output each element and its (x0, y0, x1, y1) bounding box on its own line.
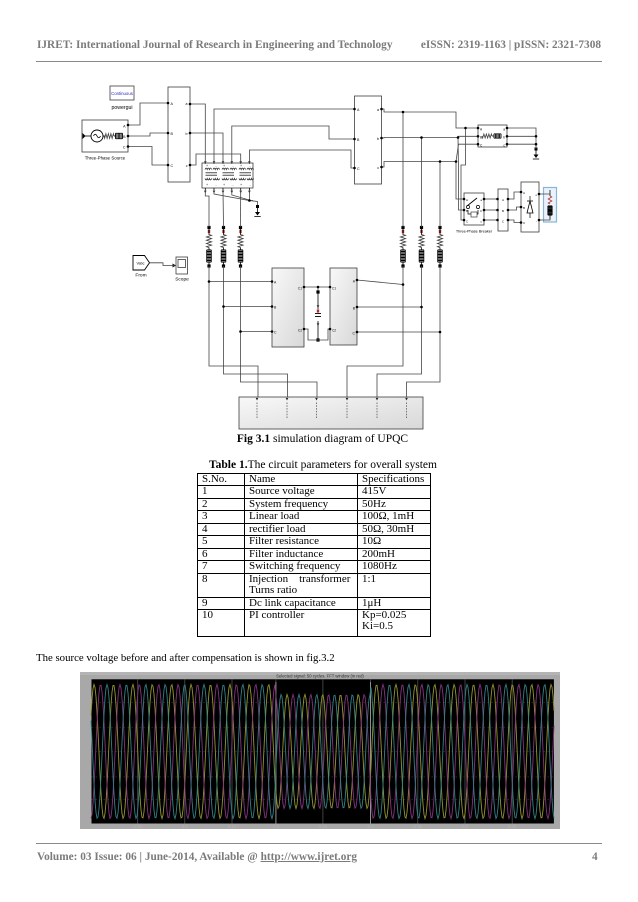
filter RLC branch left Rb (221, 226, 226, 268)
svg-text:C: C (357, 167, 360, 171)
port dot VI1 c (189, 164, 192, 167)
svg-text:+: + (535, 194, 537, 198)
svg-text:A: A (466, 198, 468, 202)
svg-text:-1000: -1000 (80, 797, 91, 802)
port dot VI1 b (189, 132, 192, 135)
svg-text:-: - (249, 183, 250, 187)
port dot bridge C (520, 221, 523, 224)
wire source C to VI1 C (128, 147, 168, 166)
port dot VI1 B (167, 132, 170, 135)
port dot load A (477, 127, 480, 130)
port dot comp C (271, 330, 274, 333)
wire phase A tap to breaker C (461, 128, 466, 220)
svg-text:+: + (240, 164, 242, 168)
port dot VI2 c (380, 166, 383, 169)
three-phase source label (85, 156, 126, 161)
gradient defs (0, 0, 1, 1)
junction branch Ra / comp A (208, 280, 211, 283)
scope outer gray frame (80, 672, 560, 829)
port dot meas a (507, 198, 510, 201)
wire breaker b to measurement B (484, 209, 497, 211)
svg-text:+: + (206, 164, 208, 168)
svg-text:b: b (186, 132, 188, 136)
filter RLC branch right Rz (437, 226, 442, 268)
wire bridge plus to RL load (539, 191, 550, 195)
three-phase breaker label (456, 230, 493, 234)
shunt compensator subsystem block (330, 268, 357, 345)
svg-text:-: - (249, 164, 250, 168)
scope vertical gridlines (137, 679, 139, 823)
port dot meas b (507, 209, 510, 212)
svg-text:C1: C1 (332, 287, 336, 291)
footer page number (592, 851, 598, 863)
port dot comp B (271, 305, 274, 308)
svg-text:-500: -500 (81, 774, 90, 779)
svg-text:c: c (377, 166, 379, 170)
ground at series RLC load (533, 148, 539, 160)
port dot source B (127, 135, 130, 138)
svg-text:a: a (377, 108, 379, 112)
junction comp A / Rx (402, 283, 405, 286)
svg-text:B: B (502, 209, 504, 213)
series compensator subsystem block (272, 268, 304, 347)
wire transformer sec 6 to ground node (249, 191, 257, 206)
svg-text:0.25: 0.25 (319, 824, 328, 829)
svg-text:c: c (186, 164, 188, 168)
powergui block (110, 86, 134, 100)
wire measurement a to bridge A (508, 192, 521, 199)
wire transformer sec 5 to branch Rc (240, 191, 242, 228)
wire transformer sec 3 to branch Rb (222, 191, 225, 228)
svg-text:-: - (536, 219, 537, 223)
table 1 (197, 473, 431, 637)
svg-text:1000: 1000 (80, 700, 90, 705)
junction capacitor top (317, 286, 320, 289)
junction at branch Rx top (402, 111, 405, 114)
svg-text:0.45: 0.45 (508, 824, 517, 829)
port dot shunt C1 (329, 286, 332, 289)
universal bridge rectifier block (521, 182, 539, 232)
wire phase C tap to breaker A (456, 162, 464, 200)
wire capacitor top tap (317, 287, 319, 291)
wire VI1 a to transformer port 1 (190, 104, 205, 164)
junction load c (535, 143, 538, 146)
wire branch Rb to series comp B (224, 306, 273, 308)
filter RLC branch left Rc (238, 226, 243, 268)
svg-text:b: b (377, 137, 379, 141)
svg-text:1500: 1500 (80, 677, 90, 682)
svg-text:Selected signal: 50 cycles. FF: Selected signal: 50 cycles. FFT window (… (276, 674, 364, 679)
port dot bridge A (520, 191, 523, 194)
svg-text:Scope: Scope (175, 277, 189, 283)
junction transformer ground node (248, 199, 251, 202)
wire transformer port 6 to VI2 C (249, 150, 354, 168)
port dot bridge B (520, 206, 523, 209)
port dot breaker b (483, 209, 486, 212)
junction comp C / Rz (439, 331, 442, 334)
scope three-phase waveforms (91, 685, 554, 819)
port dot comp C1r (303, 286, 306, 289)
port dot VI2 A (353, 108, 356, 111)
series RLC load block (selected, blue) (544, 188, 557, 223)
port dot breaker a (483, 198, 486, 201)
svg-text:B: B (523, 206, 525, 210)
wire branch Ra to series comp A (209, 281, 272, 283)
wire branch Ry down to port5 (377, 266, 422, 397)
port dot breaker C (463, 219, 466, 222)
port dot bridge plus (538, 193, 541, 196)
wire transformer port 4 to VI2 B (232, 126, 355, 164)
svg-text:-: - (232, 164, 233, 168)
injection transformer block (3 single-phase windings) (202, 163, 254, 188)
DC link capacitor C1 (315, 290, 321, 341)
junction at branch Ry top (420, 136, 423, 139)
junction comp B / Ry (420, 306, 423, 309)
scope plot black area (92, 679, 554, 823)
svg-text:C2: C2 (298, 329, 302, 333)
scope label (175, 277, 189, 283)
port dot load B (477, 135, 480, 138)
port dot meas A (496, 198, 499, 201)
wire branch Rc to series comp C (241, 331, 273, 333)
header rule (36, 61, 602, 62)
svg-text:0.35: 0.35 (414, 824, 423, 829)
wire series comp C1 to shunt comp C1 (304, 286, 330, 288)
svg-text:-: - (215, 164, 216, 168)
wire branch Rc down to port3 (241, 266, 318, 397)
svg-text:0.1: 0.1 (182, 824, 189, 829)
port dot breaker A (463, 198, 466, 201)
wire load c to ground bus (507, 143, 536, 145)
svg-text:0.15: 0.15 (228, 824, 237, 829)
svg-text:C2: C2 (332, 329, 336, 333)
svg-text:-: - (215, 183, 216, 187)
sag boundary transients (275, 682, 277, 824)
scope horizontal gridlines (92, 701, 554, 703)
port dot VI1 C (167, 164, 170, 167)
svg-text:A: A (502, 198, 504, 202)
port dot breaker B (463, 209, 466, 212)
wire shunt comp C to branch Rz (357, 331, 440, 333)
wire transformer sec 2 to ground node (214, 191, 253, 201)
port dot source A (127, 124, 130, 127)
caption fig 3.1 (0, 433, 638, 445)
wire VI2 a load phase A (382, 109, 479, 128)
svg-text:B: B (480, 136, 482, 140)
wire measurement c to bridge C (508, 220, 521, 223)
wire source B to VI1 B (128, 133, 168, 136)
wire branch Rz tap up (439, 162, 441, 228)
wire branch Rx tap up (402, 112, 404, 227)
port dot load c (506, 143, 509, 146)
wire breaker c to measurement C (484, 219, 497, 221)
powergui label (111, 105, 132, 111)
port dot shunt A (356, 279, 359, 282)
junction branch Rb / comp B (222, 305, 225, 308)
wire VI1 c to transformer port 5 (190, 154, 241, 165)
port dot breaker c (483, 219, 486, 222)
port dot source C (127, 145, 130, 148)
svg-text:500: 500 (83, 725, 91, 730)
port dot VI2 b (380, 137, 383, 140)
svg-text:From: From (135, 273, 146, 279)
svg-text:Three-Phase Source: Three-Phase Source (85, 156, 126, 161)
svg-text:Continuous: Continuous (111, 91, 133, 96)
port dot load C (477, 143, 480, 146)
junction phase B tap (457, 136, 460, 139)
scope block (176, 257, 188, 274)
port dot comp A (271, 280, 274, 283)
wire VI1 b to transformer port 3 (190, 133, 223, 164)
measurement scopes subsystem block (239, 397, 423, 429)
wire source A to VI1 A (128, 103, 168, 125)
wire transformer sec 4 to ground node (232, 191, 251, 201)
measurement block (498, 189, 508, 231)
three-phase breaker block (464, 193, 484, 225)
port dot VI2 C (353, 167, 356, 170)
table caption (0, 459, 638, 471)
wire branch Rz down to port6 (407, 266, 441, 397)
wire branch Rb down to port2 (224, 266, 288, 397)
port dot VI1 A (167, 102, 170, 105)
svg-text:-1500: -1500 (80, 821, 91, 826)
header right (421, 39, 601, 51)
svg-text:-: - (232, 183, 233, 187)
wire load a to ground bus (507, 128, 536, 149)
port dot VI2 B (353, 138, 356, 141)
wire branch Rx down to port4 (347, 266, 403, 397)
From label (135, 273, 146, 279)
port dot meas B (496, 209, 499, 212)
svg-text:+: + (223, 183, 225, 187)
svg-text:0.3: 0.3 (367, 824, 374, 829)
wire From to Scope (150, 263, 175, 266)
filter RLC branch left Ra (206, 226, 211, 268)
svg-text:+: + (223, 164, 225, 168)
wire shunt comp B to branch Ry (357, 306, 422, 308)
port dot load a (506, 127, 509, 130)
port dot VI1 a (189, 103, 192, 106)
wire VI2 c load phase C (382, 144, 479, 167)
three-phase V-I measurement block 2 (355, 96, 382, 184)
port dot shunt C2 (329, 328, 332, 331)
svg-text:+: + (206, 183, 208, 187)
svg-text:0.4: 0.4 (462, 824, 469, 829)
junction load b (535, 135, 538, 138)
junction phase C tap (455, 160, 458, 163)
wire breaker a to measurement A (484, 198, 497, 200)
From tag block (133, 256, 150, 271)
svg-text:C: C (123, 146, 126, 150)
port dot VI2 a (380, 108, 383, 111)
junction branch Rc / comp C (239, 330, 242, 333)
wire shunt comp A to branch Rx (357, 280, 403, 285)
svg-text:powergui: powergui (111, 105, 132, 111)
svg-text:C: C (171, 164, 174, 168)
svg-text:a: a (503, 128, 505, 132)
paragraph (36, 652, 335, 664)
port dot shunt C (356, 331, 359, 334)
svg-text:a: a (186, 102, 188, 106)
wire series comp C2 to capacitor bottom to shunt comp C2 (304, 329, 330, 340)
injection transformer port arrows (204, 161, 251, 193)
svg-text:b: b (503, 136, 505, 140)
wire phase B tap to breaker B (458, 138, 464, 211)
wire transformer port 2 to VI2 A (214, 109, 355, 164)
port dot comp C2r (303, 328, 306, 331)
port dot meas C (496, 219, 499, 222)
svg-text:0.2: 0.2 (273, 824, 280, 829)
svg-text:Three-Phase Breaker: Three-Phase Breaker (456, 230, 493, 234)
three-phase V-I measurement block 1 (168, 87, 190, 182)
filter RLC branch right Rx (400, 226, 405, 268)
three-phase source block (82, 120, 128, 152)
footer left (37, 851, 357, 863)
filter RLC branch right Ry (419, 226, 424, 268)
wire VI2 b load phase B (382, 136, 479, 138)
header left (37, 39, 392, 51)
junction at branch Rz top (439, 160, 442, 163)
wire branch Ry tap up (421, 138, 423, 228)
svg-text:Vabc: Vabc (137, 262, 145, 266)
wire branch Ra down to port1 (209, 266, 258, 397)
three-phase series RLC load block (478, 125, 507, 148)
svg-text:B: B (466, 209, 468, 213)
ground under transformer (254, 205, 260, 217)
scope input arrowhead (173, 264, 177, 268)
svg-text:0.05: 0.05 (133, 824, 142, 829)
wire transformer sec 1 to branch Ra (205, 191, 209, 228)
wire load b to ground bus (507, 135, 536, 137)
footer rule (36, 843, 602, 844)
wire measurement b to bridge B (508, 207, 521, 210)
port dot meas c (507, 219, 510, 222)
svg-text:A: A (523, 191, 525, 195)
port dot bridge minus (538, 219, 541, 222)
scope figure fig 3.2 (80, 672, 560, 829)
wire bridge minus to RL load (539, 219, 550, 221)
svg-text:C1: C1 (298, 287, 302, 291)
port dot load b (506, 135, 509, 138)
junction phase A tap (464, 127, 467, 130)
port dot shunt B (356, 306, 359, 309)
svg-text:+: + (240, 183, 242, 187)
